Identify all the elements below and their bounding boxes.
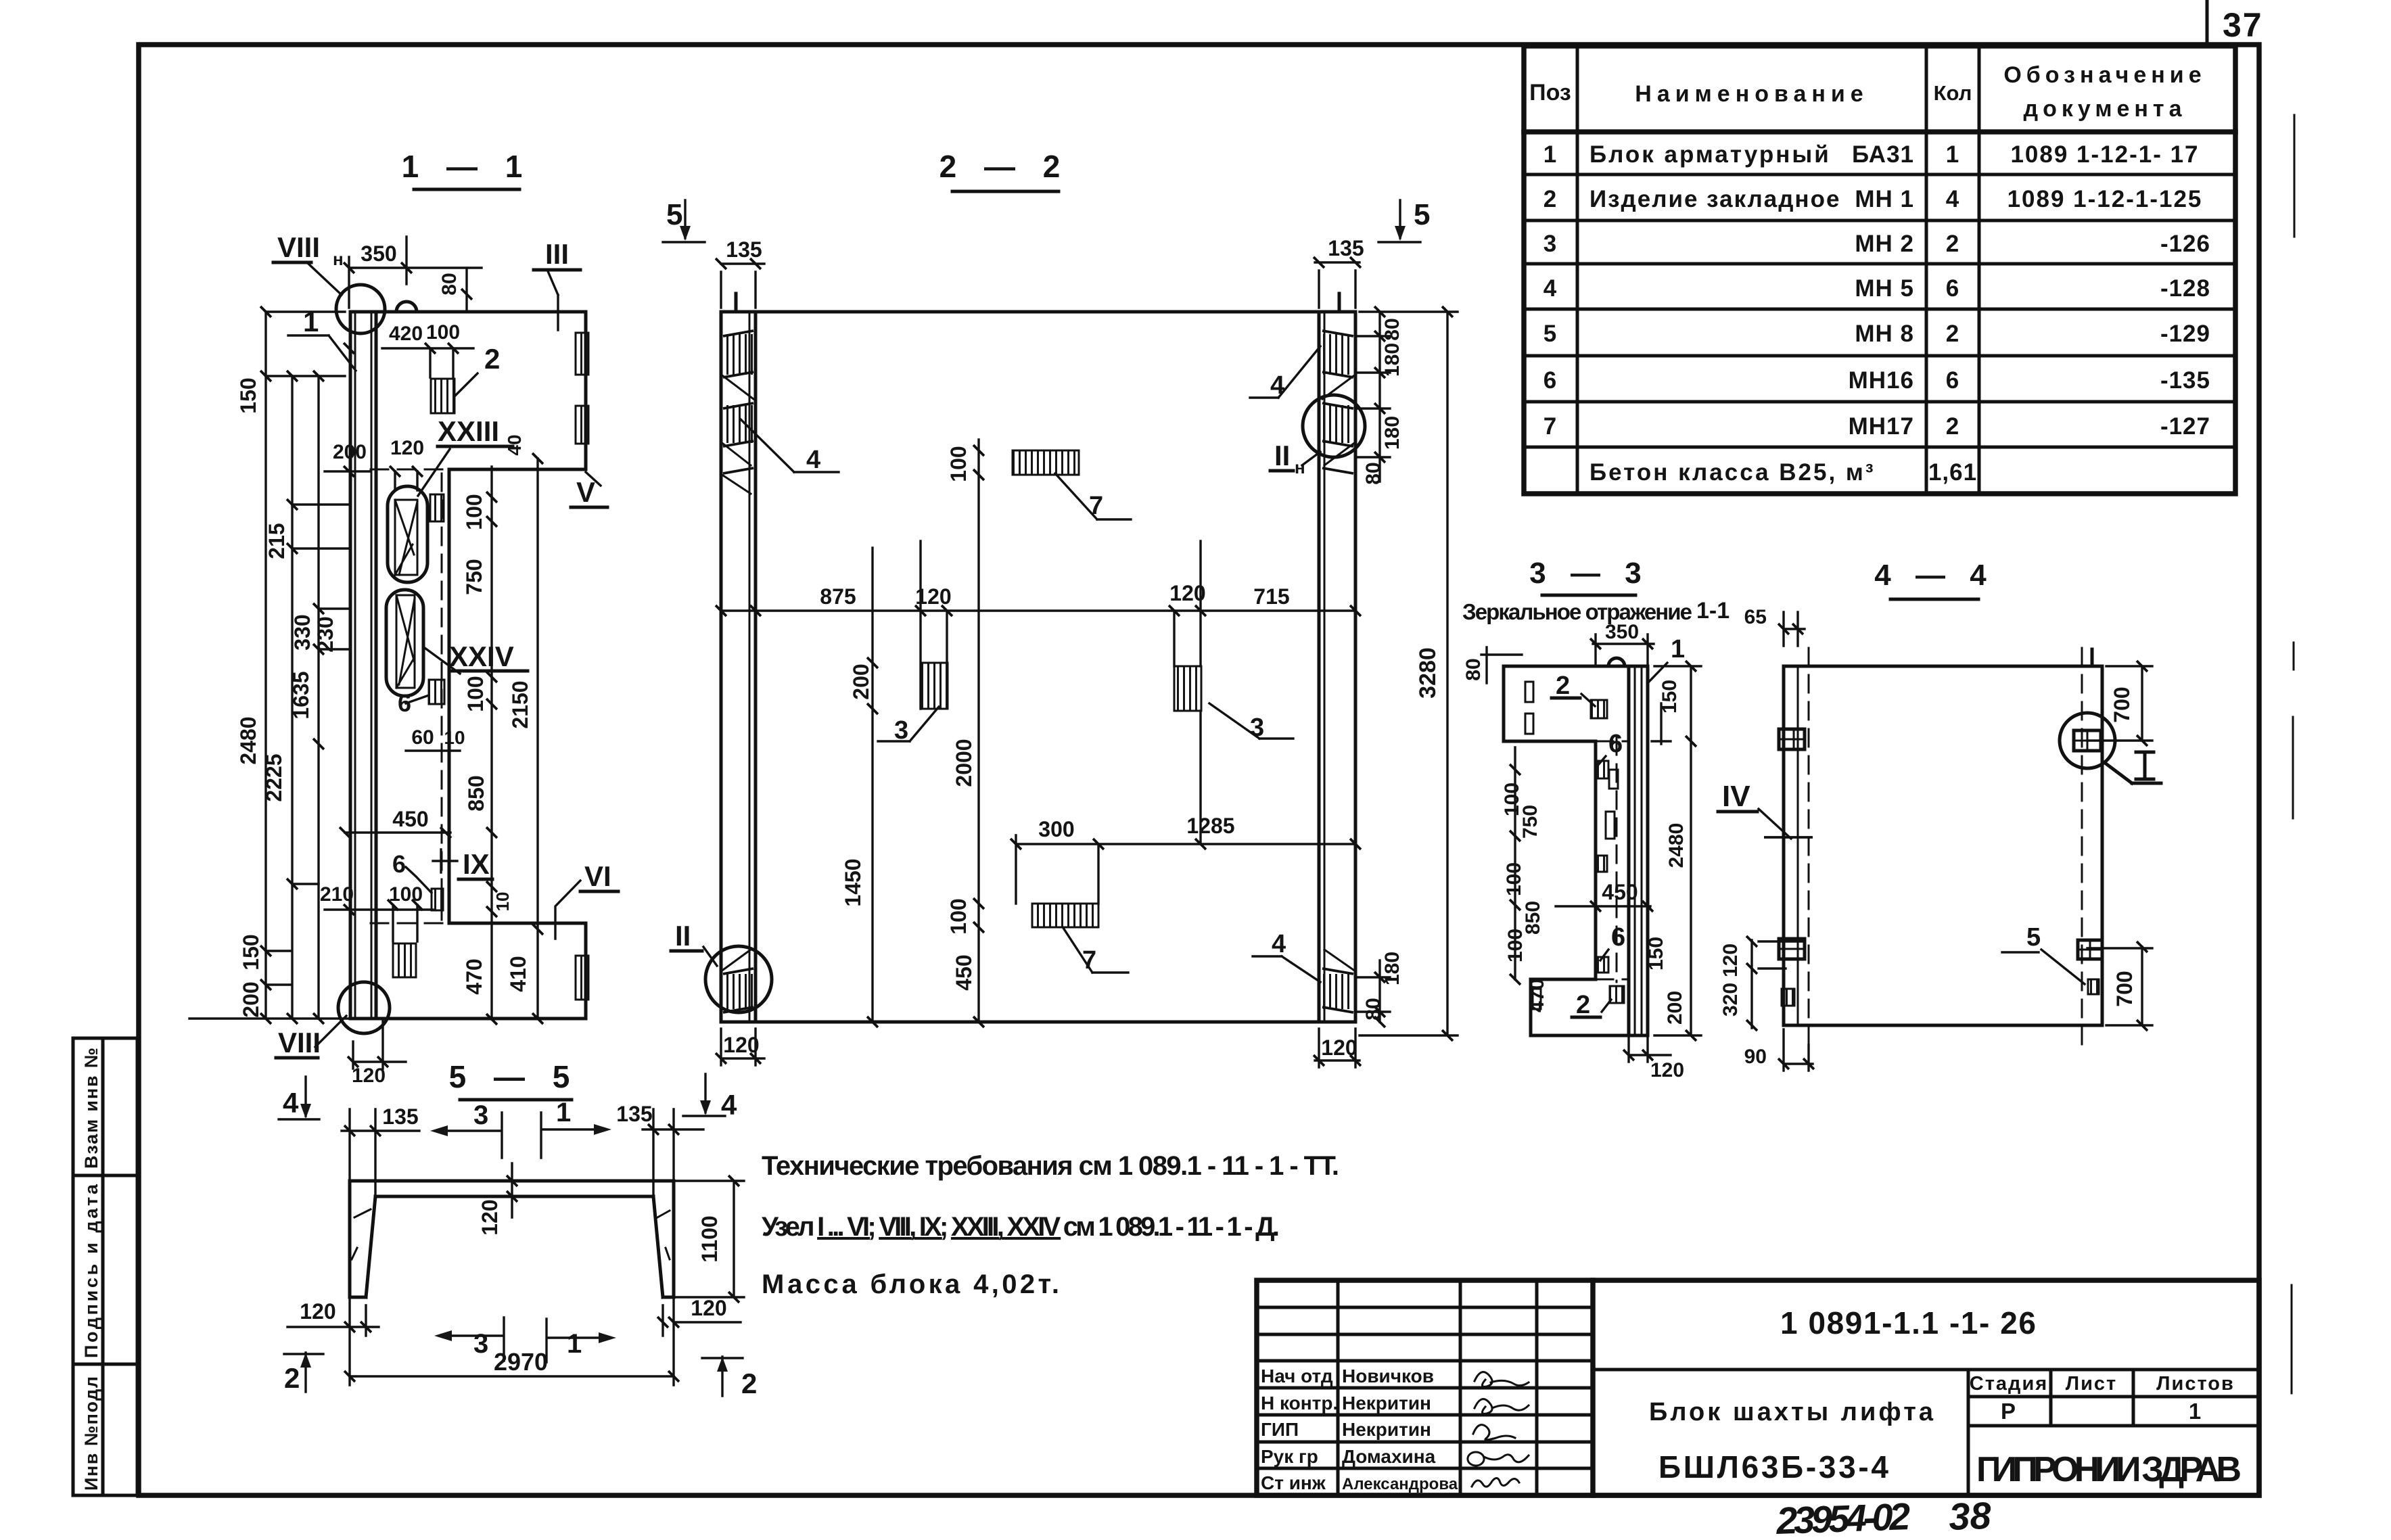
svg-text:350: 350 xyxy=(1605,621,1639,643)
svg-text:700: 700 xyxy=(2110,686,2134,722)
svg-text:120: 120 xyxy=(915,584,951,609)
svg-text:1: 1 xyxy=(556,1098,571,1127)
svg-text:90: 90 xyxy=(1744,1046,1767,1068)
svg-text:4: 4 xyxy=(806,446,820,474)
svg-text:1285: 1285 xyxy=(1186,814,1234,838)
svg-text:5: 5 xyxy=(1414,198,1430,231)
svg-text:БА31: БА31 xyxy=(1852,141,1914,168)
svg-text:2: 2 xyxy=(1946,413,1959,440)
svg-text:Новичков: Новичков xyxy=(1342,1366,1434,1386)
svg-text:60: 60 xyxy=(411,726,434,749)
svg-text:80: 80 xyxy=(438,273,461,295)
svg-text:1089 1-12-1- 17: 1089 1-12-1- 17 xyxy=(2010,141,2199,168)
svg-text:БШЛ63Б-33-4: БШЛ63Б-33-4 xyxy=(1658,1449,1888,1485)
svg-text:100: 100 xyxy=(946,898,971,934)
svg-text:120: 120 xyxy=(691,1296,726,1320)
svg-text:80: 80 xyxy=(1381,318,1403,340)
svg-text:6: 6 xyxy=(392,850,406,878)
svg-text:1: 1 xyxy=(2189,1399,2202,1424)
svg-text:2: 2 xyxy=(1946,231,1959,257)
svg-text:2225: 2225 xyxy=(262,753,286,801)
svg-text:120: 120 xyxy=(1321,1035,1357,1060)
svg-text:470: 470 xyxy=(1526,979,1548,1012)
svg-text:Александрова: Александрова xyxy=(1342,1475,1458,1493)
svg-text:450: 450 xyxy=(1602,880,1638,904)
svg-text:4: 4 xyxy=(1270,371,1284,400)
svg-text:38: 38 xyxy=(1948,1494,1992,1538)
svg-text:XXIV: XXIV xyxy=(449,640,514,672)
svg-text:750: 750 xyxy=(462,559,486,594)
svg-text:150: 150 xyxy=(239,934,263,970)
svg-text:5: 5 xyxy=(2026,923,2041,952)
svg-text:-126: -126 xyxy=(2160,231,2210,257)
svg-text:1450: 1450 xyxy=(841,858,865,906)
svg-text:200: 200 xyxy=(849,663,873,699)
svg-text:330: 330 xyxy=(290,614,315,650)
svg-text:IX: IX xyxy=(463,848,490,880)
svg-text:6: 6 xyxy=(1608,730,1623,758)
svg-text:2 — 2: 2 — 2 xyxy=(939,149,1070,184)
svg-text:120: 120 xyxy=(1719,943,1742,977)
svg-text:420: 420 xyxy=(389,323,423,345)
svg-text:Некритин: Некритин xyxy=(1342,1393,1431,1414)
svg-text:6: 6 xyxy=(1946,275,1959,302)
svg-text:Изделие закладное: Изделие закладное xyxy=(1589,186,1840,212)
svg-text:470: 470 xyxy=(462,958,486,994)
svg-text:Некритин: Некритин xyxy=(1342,1419,1431,1440)
svg-text:6: 6 xyxy=(1946,367,1959,394)
svg-text:2000: 2000 xyxy=(952,739,976,787)
svg-text:2480: 2480 xyxy=(1665,823,1688,868)
svg-text:135: 135 xyxy=(616,1102,652,1126)
svg-text:Взам инв №: Взам инв № xyxy=(81,1047,101,1169)
svg-text:документа: документа xyxy=(2024,96,2187,122)
svg-text:III: III xyxy=(545,238,569,270)
svg-text:2480: 2480 xyxy=(236,716,260,764)
svg-text:135: 135 xyxy=(726,237,762,262)
svg-text:2: 2 xyxy=(1576,991,1590,1019)
svg-text:450: 450 xyxy=(952,954,976,990)
svg-text:100: 100 xyxy=(1503,862,1525,896)
svg-text:4: 4 xyxy=(1272,930,1286,958)
svg-text:4: 4 xyxy=(1946,186,1959,212)
svg-text:200: 200 xyxy=(333,441,367,463)
svg-text:6: 6 xyxy=(1611,923,1625,952)
svg-text:н: н xyxy=(333,249,344,269)
svg-text:23954-02: 23954-02 xyxy=(1775,1495,1911,1540)
svg-text:1089 1-12-1-125: 1089 1-12-1-125 xyxy=(2007,186,2203,212)
svg-text:850: 850 xyxy=(464,775,488,811)
svg-text:1: 1 xyxy=(1946,141,1959,168)
svg-text:Технические требования см 1 0: Технические требования см 1 089.1 - 11 -… xyxy=(762,1151,1339,1181)
svg-text:120: 120 xyxy=(390,437,424,459)
svg-text:1: 1 xyxy=(1543,141,1557,168)
svg-text:МН16: МН16 xyxy=(1849,367,1914,394)
svg-text:100: 100 xyxy=(389,883,423,906)
svg-text:ГИП: ГИП xyxy=(1261,1419,1299,1440)
svg-text:Стадия: Стадия xyxy=(1970,1373,2048,1395)
svg-text:2: 2 xyxy=(284,1362,300,1394)
svg-text:Масса блока 4,02т.: Масса блока 4,02т. xyxy=(762,1269,1059,1299)
svg-text:Блок арматурный: Блок арматурный xyxy=(1589,141,1831,168)
svg-text:МН17: МН17 xyxy=(1849,413,1914,440)
svg-text:2: 2 xyxy=(1556,672,1570,700)
svg-text:1 0891-1.1 -1- 26: 1 0891-1.1 -1- 26 xyxy=(1780,1305,2037,1340)
svg-text:IV: IV xyxy=(1722,780,1750,813)
svg-text:Блок шахты лифта: Блок шахты лифта xyxy=(1649,1398,1934,1426)
svg-text:1-1: 1-1 xyxy=(1696,598,1730,624)
svg-text:Лист: Лист xyxy=(2066,1373,2118,1395)
svg-text:120: 120 xyxy=(300,1299,335,1324)
svg-text:1: 1 xyxy=(303,306,319,337)
svg-text:VIII: VIII xyxy=(278,1027,321,1058)
svg-text:200: 200 xyxy=(1664,991,1686,1025)
svg-text:н: н xyxy=(1295,457,1305,477)
svg-text:1100: 1100 xyxy=(697,1215,722,1262)
svg-text:-135: -135 xyxy=(2160,367,2210,394)
svg-text:3 — 3: 3 — 3 xyxy=(1529,557,1649,590)
svg-text:215: 215 xyxy=(264,523,289,559)
svg-text:4 — 4: 4 — 4 xyxy=(1874,559,1994,592)
svg-text:150: 150 xyxy=(1645,937,1667,971)
svg-text:180: 180 xyxy=(1381,343,1403,377)
svg-text:II: II xyxy=(1274,440,1290,471)
svg-text:Поз: Поз xyxy=(1529,80,1571,106)
svg-text:100: 100 xyxy=(1504,929,1527,962)
svg-text:100: 100 xyxy=(946,446,971,482)
svg-text:2150: 2150 xyxy=(508,680,532,728)
svg-text:5 — 5: 5 — 5 xyxy=(449,1059,580,1094)
svg-text:1635: 1635 xyxy=(289,671,313,719)
svg-text:VI: VI xyxy=(584,860,611,892)
svg-text:230: 230 xyxy=(313,616,338,652)
svg-text:Н контр.: Н контр. xyxy=(1261,1393,1338,1414)
svg-text:120: 120 xyxy=(352,1065,386,1087)
svg-text:1: 1 xyxy=(567,1329,582,1359)
svg-text:3: 3 xyxy=(473,1329,488,1359)
svg-text:-128: -128 xyxy=(2160,275,2210,302)
svg-text:3280: 3280 xyxy=(1415,647,1441,699)
svg-text:100: 100 xyxy=(462,494,486,530)
svg-text:300: 300 xyxy=(1038,817,1074,841)
svg-text:2: 2 xyxy=(484,343,500,375)
svg-text:210: 210 xyxy=(320,883,354,906)
svg-text:-127: -127 xyxy=(2160,413,2210,440)
svg-text:Зеркальное отражение: Зеркальное отражение xyxy=(1462,599,1692,624)
svg-text:II: II xyxy=(675,920,691,952)
svg-text:10: 10 xyxy=(492,892,513,912)
svg-text:МН 5: МН 5 xyxy=(1855,275,1914,302)
svg-text:1: 1 xyxy=(1671,635,1685,663)
svg-text:135: 135 xyxy=(1328,236,1364,260)
svg-text:100: 100 xyxy=(426,321,460,344)
svg-text:150: 150 xyxy=(236,377,260,413)
svg-text:80: 80 xyxy=(1362,462,1385,484)
svg-text:1 — 1: 1 — 1 xyxy=(402,149,532,184)
svg-text:7: 7 xyxy=(1543,413,1557,440)
svg-text:450: 450 xyxy=(392,807,428,831)
svg-text:120: 120 xyxy=(1169,581,1205,605)
svg-text:135: 135 xyxy=(382,1104,418,1129)
svg-text:2: 2 xyxy=(1946,321,1959,347)
svg-text:6: 6 xyxy=(1543,367,1557,394)
svg-text:120: 120 xyxy=(723,1033,759,1057)
svg-text:МН 8: МН 8 xyxy=(1855,321,1914,347)
svg-text:Р: Р xyxy=(2001,1399,2017,1424)
svg-text:10: 10 xyxy=(444,727,465,748)
svg-text:Узел I ... VI; VIII, IX; XXIII: Узел I ... VI; VIII, IX; XXIII, XXIV см … xyxy=(762,1212,1280,1242)
svg-text:МН 1: МН 1 xyxy=(1855,186,1914,212)
svg-text:7: 7 xyxy=(1089,492,1103,520)
svg-text:80: 80 xyxy=(1462,658,1485,680)
svg-text:37: 37 xyxy=(2223,6,2263,44)
svg-text:Инв №подл: Инв №подл xyxy=(81,1376,101,1491)
svg-text:5: 5 xyxy=(1543,321,1557,347)
svg-text:XXIII: XXIII xyxy=(438,415,499,447)
svg-text:4: 4 xyxy=(283,1087,299,1119)
svg-text:3: 3 xyxy=(1543,231,1557,257)
svg-text:-129: -129 xyxy=(2160,321,2210,347)
svg-text:4: 4 xyxy=(1543,275,1557,302)
svg-text:2: 2 xyxy=(1543,186,1557,212)
svg-text:1,61: 1,61 xyxy=(1928,459,1977,486)
svg-text:80: 80 xyxy=(1362,998,1385,1020)
svg-text:410: 410 xyxy=(506,956,530,991)
svg-text:350: 350 xyxy=(361,241,396,266)
svg-text:VIII: VIII xyxy=(277,231,320,263)
svg-text:875: 875 xyxy=(820,584,856,609)
svg-text:Нач отд: Нач отд xyxy=(1261,1366,1333,1386)
svg-text:Наименование: Наименование xyxy=(1635,81,1868,107)
svg-text:715: 715 xyxy=(1253,584,1289,609)
svg-text:Домахина: Домахина xyxy=(1342,1446,1436,1467)
svg-text:Ст инж: Ст инж xyxy=(1261,1472,1326,1493)
svg-text:V: V xyxy=(576,476,595,508)
svg-text:180: 180 xyxy=(1381,416,1403,450)
svg-text:2: 2 xyxy=(741,1368,757,1399)
svg-text:2970: 2970 xyxy=(494,1348,548,1376)
svg-text:180: 180 xyxy=(1381,952,1403,985)
svg-text:120: 120 xyxy=(1650,1059,1684,1081)
svg-text:Кол: Кол xyxy=(1934,81,1972,105)
svg-text:120: 120 xyxy=(478,1199,502,1235)
svg-text:750: 750 xyxy=(1519,805,1541,839)
svg-text:Рук гр: Рук гр xyxy=(1261,1446,1318,1467)
svg-text:150: 150 xyxy=(1658,680,1681,714)
svg-text:65: 65 xyxy=(1744,606,1767,628)
svg-text:3: 3 xyxy=(473,1100,488,1130)
svg-text:ГИПРОНИИ ЗДРАВ: ГИПРОНИИ ЗДРАВ xyxy=(1976,1450,2242,1489)
svg-text:Бетон класса В25, м³: Бетон класса В25, м³ xyxy=(1589,459,1875,486)
svg-text:320: 320 xyxy=(1719,983,1742,1017)
svg-text:Обозначение: Обозначение xyxy=(2003,62,2206,88)
svg-text:Листов: Листов xyxy=(2156,1373,2235,1395)
svg-text:МН 2: МН 2 xyxy=(1855,231,1914,257)
svg-text:200: 200 xyxy=(239,981,263,1017)
svg-text:Подпись и дата: Подпись и дата xyxy=(81,1184,101,1358)
svg-text:700: 700 xyxy=(2112,971,2137,1006)
svg-text:100: 100 xyxy=(463,676,488,711)
